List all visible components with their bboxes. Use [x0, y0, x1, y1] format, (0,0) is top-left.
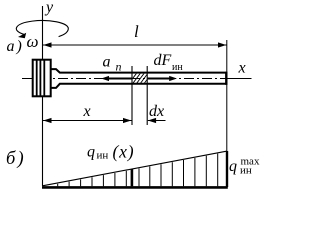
svg-text:y: y [44, 0, 54, 16]
svg-text:a: a [103, 54, 111, 71]
svg-text:ин: ин [172, 62, 183, 73]
svg-text:l: l [134, 22, 139, 41]
svg-text:q: q [87, 144, 95, 161]
svg-text:x: x [238, 60, 246, 77]
svg-text:x: x [83, 103, 91, 120]
svg-text:ω: ω [27, 32, 39, 51]
svg-text:б: б [6, 149, 16, 169]
svg-text:): ) [16, 38, 22, 55]
svg-text:dx: dx [149, 103, 164, 120]
svg-text:ин: ин [97, 150, 109, 162]
svg-text:dF: dF [154, 52, 172, 69]
svg-text:n: n [116, 60, 122, 74]
svg-text:а: а [7, 38, 15, 55]
svg-text:): ) [17, 149, 24, 169]
svg-text:q: q [229, 158, 237, 175]
svg-text:ин: ин [240, 165, 252, 177]
svg-text:(x): (x) [113, 142, 135, 162]
